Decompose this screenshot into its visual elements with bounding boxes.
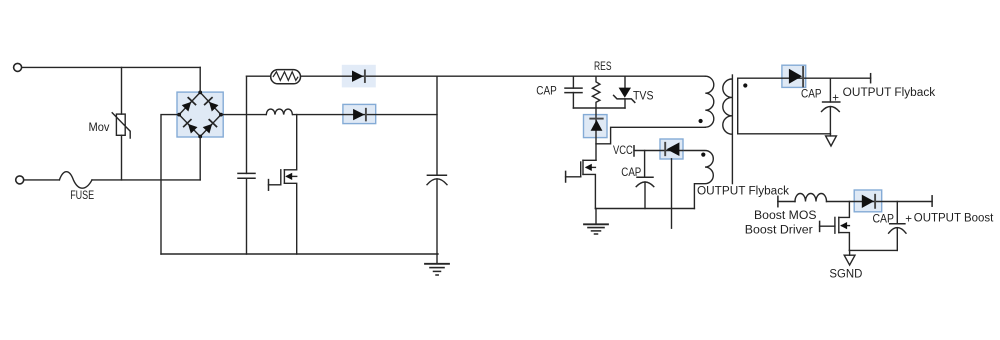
diode D1 highlight box — [342, 65, 376, 88]
bridge diode top-right — [205, 98, 219, 112]
svg-text:VCC: VCC — [613, 145, 633, 157]
transformer T1 primary dot — [699, 119, 703, 123]
diode D4 vcc — [665, 142, 679, 156]
svg-text:OUTPUT Boost: OUTPUT Boost — [914, 213, 994, 225]
diode D5 highlight box — [782, 65, 806, 87]
ground primary — [425, 254, 449, 275]
terminal tick boost in — [777, 196, 779, 206]
diode D1 bypass — [352, 70, 365, 82]
svg-text:CAP: CAP — [621, 167, 641, 179]
sgnd triangle — [844, 250, 855, 265]
terminal tick boost out — [931, 196, 933, 206]
wire top bus left — [247, 75, 271, 77]
svg-text:Mov: Mov — [89, 122, 110, 134]
wire bridge top vertex — [199, 67, 201, 92]
wire boost in — [778, 201, 795, 203]
svg-text:SGND: SGND — [829, 268, 862, 280]
transformer T1 aux dot — [701, 153, 705, 157]
transformer T1 secondary lead line — [737, 78, 739, 134]
diode D3 clamp — [590, 119, 602, 131]
diode D2 PFC boost — [353, 109, 366, 121]
svg-text:CAP: CAP — [873, 214, 895, 226]
svg-text:OUTPUT Flyback: OUTPUT Flyback — [697, 185, 789, 197]
mosfet Q3 boost — [820, 202, 850, 251]
wire secondary top — [738, 77, 871, 79]
wire stub below vcc diode — [671, 159, 673, 228]
diode D6 boost — [862, 195, 875, 208]
svg-text:FUSE: FUSE — [70, 190, 94, 202]
wire top bus right of resistor — [301, 75, 705, 77]
wire vcc — [634, 150, 683, 152]
varistor Mov — [112, 67, 130, 179]
bridge diode top-left — [181, 98, 195, 112]
transformer T1 secondary winding — [723, 79, 732, 134]
svg-text:CAP: CAP — [536, 85, 557, 97]
capacitor C4 flyback out — [822, 78, 840, 134]
capacitor CAP snubber — [565, 76, 582, 108]
wire boost source to cap — [849, 249, 897, 251]
wire snubber to drain — [595, 108, 597, 160]
terminal neutral input — [16, 176, 24, 184]
diode D6 highlight box — [854, 190, 882, 212]
ground flyback primary — [584, 209, 608, 235]
transformer T1 primary winding — [705, 76, 714, 127]
wire bridge bottom vertex to neutral — [199, 137, 201, 180]
wire secondary bottom — [738, 133, 831, 135]
fuse FUSE — [59, 172, 92, 189]
diode D4 vcc highlight box — [660, 139, 683, 159]
wire PFC output vertical — [436, 76, 438, 175]
svg-text:+: + — [832, 93, 839, 105]
resistor R1 inrush — [271, 70, 301, 84]
wire flyback ground rail — [595, 208, 694, 210]
svg-text:Boost Driver: Boost Driver — [745, 225, 813, 237]
svg-text:RES: RES — [594, 61, 612, 73]
diode D3 clamp highlight box — [584, 115, 608, 138]
diode D2 highlight box — [343, 104, 376, 123]
svg-text:TVS: TVS — [633, 91, 654, 103]
terminal tick flyback out — [870, 74, 872, 83]
terminal line input — [14, 63, 22, 71]
transformer T1 core — [731, 75, 733, 184]
svg-text:+: + — [905, 214, 912, 226]
wire top AC — [22, 66, 200, 68]
svg-text:CAP: CAP — [801, 89, 822, 101]
capacitor C1 input — [238, 76, 255, 254]
wire boost mid — [827, 201, 933, 203]
vcc terminal bar — [633, 146, 635, 156]
inductor L2 boost — [795, 194, 827, 202]
tvs diode TVS — [614, 76, 635, 108]
mosfet Q1 PFC — [269, 115, 297, 254]
diode D5 output — [789, 67, 803, 86]
wire bridge left vertex to bottom rail — [161, 115, 179, 254]
wire bridge right vertex DC+ — [221, 114, 266, 116]
bridge diode bottom-right — [202, 120, 216, 134]
capacitor C3 vcc — [636, 151, 654, 209]
transformer T1 secondary dot — [743, 83, 747, 87]
capacitor C5 boost out — [889, 202, 906, 251]
capacitor C2 bus polarized — [427, 175, 447, 254]
wire fuse to bridge — [92, 179, 200, 181]
mosfet Q2 flyback — [566, 160, 596, 208]
wire neutral to fuse — [24, 179, 59, 181]
wire drain to primary winding — [596, 127, 705, 144]
bridge diode bottom-left — [184, 120, 198, 134]
wire DC+ to output node — [293, 114, 437, 116]
wire snubber rail — [573, 107, 625, 109]
transformer T1 aux winding — [683, 151, 713, 209]
resistor RES snubber — [592, 76, 600, 108]
ground triangle flyback out — [826, 134, 837, 146]
inductor L1 PFC — [266, 109, 292, 115]
wire bottom rail — [161, 253, 438, 255]
svg-text:Boost MOS: Boost MOS — [754, 210, 817, 222]
bridge rectifier BR1 — [177, 91, 223, 139]
svg-text:OUTPUT Flyback: OUTPUT Flyback — [843, 87, 936, 99]
